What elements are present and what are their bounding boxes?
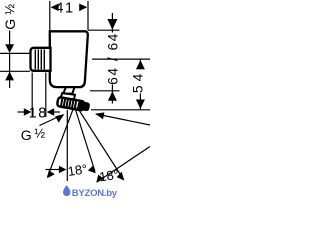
node: arrowhead at right swing line end [88, 165, 96, 173]
node: horizontal arrow at vertical line [59, 166, 67, 173]
node: dim 18 arrow pointing right [24, 108, 32, 115]
transistor: knurled hose nut [57, 97, 90, 112]
svg-text:G½: G½ [2, 2, 18, 30]
svg-text:G½: G½ [21, 126, 45, 143]
wire: dim 54 line vertical [139, 59, 141, 110]
wire: tail of horizontal arrow [46, 169, 60, 171]
wire: swing line 36 deg [77, 107, 124, 180]
node: arrowhead at 36 deg line end [117, 172, 125, 181]
wire: vertical swing reference line [66, 110, 68, 181]
node: arrow up onto bottom extension [108, 91, 117, 100]
svg-text:BYZON.by: BYZON.by [72, 188, 118, 199]
capacitor: threaded wall nipple on left [31, 48, 51, 71]
wire: thread top reference line [0, 52, 30, 54]
node: dim 18 arrow pointing left [47, 108, 55, 115]
node: dim 41 arrow left [51, 4, 59, 12]
svg-text:41: 41 [55, 0, 74, 16]
wire: swing line 18 deg left [48, 108, 74, 177]
node: arrowhead pointing left at outlet end [95, 112, 104, 119]
node: dim text 64/64 rotated [106, 32, 121, 85]
transistor: collar band [61, 93, 75, 99]
node: arrow down onto thread top line [5, 44, 14, 53]
wire: body bottom extension to right [90, 90, 120, 92]
node: BYZON.by watermark [63, 185, 118, 199]
wire: leader from G 1/2 to outlet mouth [40, 116, 62, 126]
transistor: outlet neck below body [63, 87, 74, 93]
svg-text:18°: 18° [98, 167, 120, 185]
wire: dim 18 extension line right [45, 73, 47, 118]
svg-text:18: 18 [29, 106, 48, 122]
wire: thread bottom reference line [0, 70, 30, 72]
node: dim text 54 rotated [131, 69, 146, 93]
node: dark end cap of hose nut [77, 101, 90, 112]
wire: 64/64 dim line lower part [111, 82, 113, 104]
wire: thread dim line vertical [9, 53, 11, 88]
wire: dim 41 extension line left [49, 1, 51, 30]
wire: dim 18 extension line left [31, 73, 33, 118]
wire: supply axis reference line right [92, 58, 150, 60]
wire: 64/64 dim line vertical [111, 13, 113, 35]
node: arrowhead at chord lower end [96, 175, 104, 183]
node: arrow up onto thread bottom line [5, 72, 14, 81]
wire: nipple thread lines [35, 49, 44, 69]
body: wall outlet housing [50, 31, 88, 87]
svg-text:18°: 18° [67, 161, 89, 179]
wire: outlet axis reference line right [91, 109, 150, 111]
wire: swing line 18 deg right [75, 108, 95, 172]
node: dim 54 arrow up [136, 60, 145, 69]
wire: chord line near second label [97, 147, 150, 183]
node: arrow down onto top extension [107, 19, 117, 30]
node: leader arrowhead at outlet [55, 114, 64, 123]
wire: body top extension to right [88, 29, 120, 31]
node: dim 41 arrow right [79, 4, 87, 12]
wire: dim 41 extension line right [87, 1, 89, 30]
node: dim 54 arrow down [136, 100, 145, 109]
wire: slanted leader on right of outlet [96, 114, 150, 125]
svg-text:54: 54 [131, 70, 146, 93]
wire: leader from G 1/2 down [9, 31, 11, 45]
wire: dim 18 left tail [18, 111, 25, 113]
wire: dim 18 right tail [54, 111, 61, 113]
node: arrowhead at left swing line end [47, 170, 55, 178]
